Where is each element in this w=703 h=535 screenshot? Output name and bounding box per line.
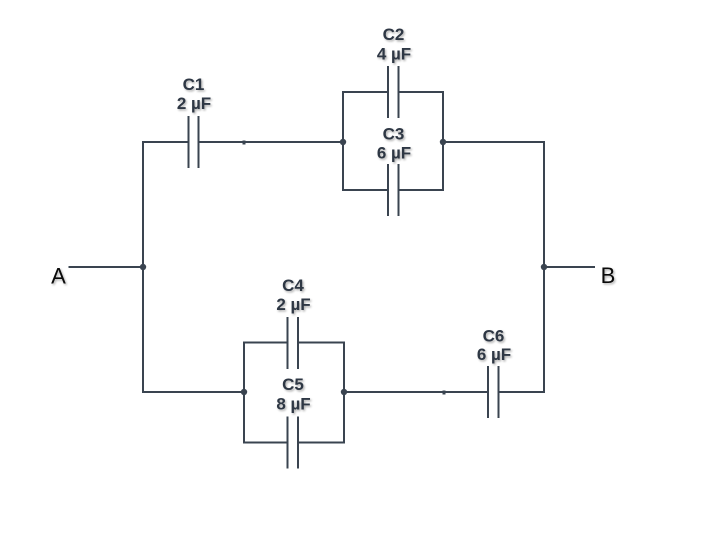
- wire box2 left edge: [243, 343, 245, 443]
- wire box2 top rail right of C4: [298, 342, 345, 344]
- capacitor C3: [388, 164, 399, 216]
- label C2 value 4 uF: [377, 25, 411, 64]
- svg-text:C4: C4: [282, 276, 304, 295]
- node A junction: [140, 264, 146, 270]
- wire box1 bottom rail right of C3: [399, 189, 445, 191]
- svg-text:C2: C2: [383, 25, 405, 44]
- wire top segment left of C1: [142, 141, 189, 143]
- wire box1 top rail left of C2: [342, 91, 388, 93]
- capacitor C2: [388, 66, 399, 118]
- svg-text:2 µF: 2 µF: [276, 295, 310, 314]
- svg-text:C5: C5: [282, 375, 304, 394]
- svg-text:2 µF: 2 µF: [177, 94, 211, 113]
- wire right rail: [543, 141, 545, 393]
- wire B stub: [544, 266, 595, 268]
- junction box2 right: [341, 389, 347, 395]
- wire box2 bottom rail left of C5: [243, 442, 288, 444]
- junction box1 left: [340, 139, 346, 145]
- svg-text:C6: C6: [483, 327, 505, 346]
- capacitor C1: [189, 116, 199, 168]
- svg-text:4 µF: 4 µF: [377, 45, 411, 64]
- svg-text:A: A: [51, 264, 66, 289]
- svg-text:C1: C1: [183, 75, 205, 94]
- svg-text:6 µF: 6 µF: [377, 144, 411, 163]
- wire box2 to C6: [343, 391, 488, 393]
- svg-text:8 µF: 8 µF: [276, 395, 310, 414]
- wire box1 bottom rail left of C3: [342, 189, 388, 191]
- label C1 value 2 uF: [177, 75, 211, 113]
- wire box2 right edge: [343, 343, 345, 443]
- wire box1 right edge: [442, 92, 444, 190]
- svg-text:6 µF: 6 µF: [477, 345, 511, 364]
- label C6 value 6 uF: [477, 327, 511, 365]
- capacitor C4: [288, 317, 299, 369]
- wire box1 top rail right of C2: [399, 91, 445, 93]
- wire box1 left edge: [342, 92, 344, 190]
- node B junction: [541, 264, 547, 270]
- label C4 value 2 uF: [276, 276, 310, 314]
- junction box1 right: [440, 139, 446, 145]
- junction box2 left: [241, 389, 247, 395]
- svg-text:B: B: [601, 263, 616, 288]
- wire A stub: [69, 266, 144, 268]
- wire top segment C1 to box1: [199, 141, 345, 143]
- wire joint nub bottom: [443, 391, 446, 395]
- wire C6 to right rail: [499, 391, 546, 393]
- wire bottom segment left: [142, 391, 245, 393]
- wire joint nub top: [243, 141, 246, 145]
- label C3 value 6 uF: [377, 125, 411, 163]
- capacitor C6: [488, 366, 499, 418]
- wire box2 bottom rail right of C5: [298, 442, 345, 444]
- wire box2 top rail left of C4: [243, 342, 288, 344]
- capacitor C5: [288, 417, 299, 469]
- svg-text:C3: C3: [383, 125, 405, 144]
- label C5 value 8 uF: [276, 375, 310, 414]
- wire left rail: [142, 141, 144, 393]
- wire box1 to right rail: [443, 141, 545, 143]
